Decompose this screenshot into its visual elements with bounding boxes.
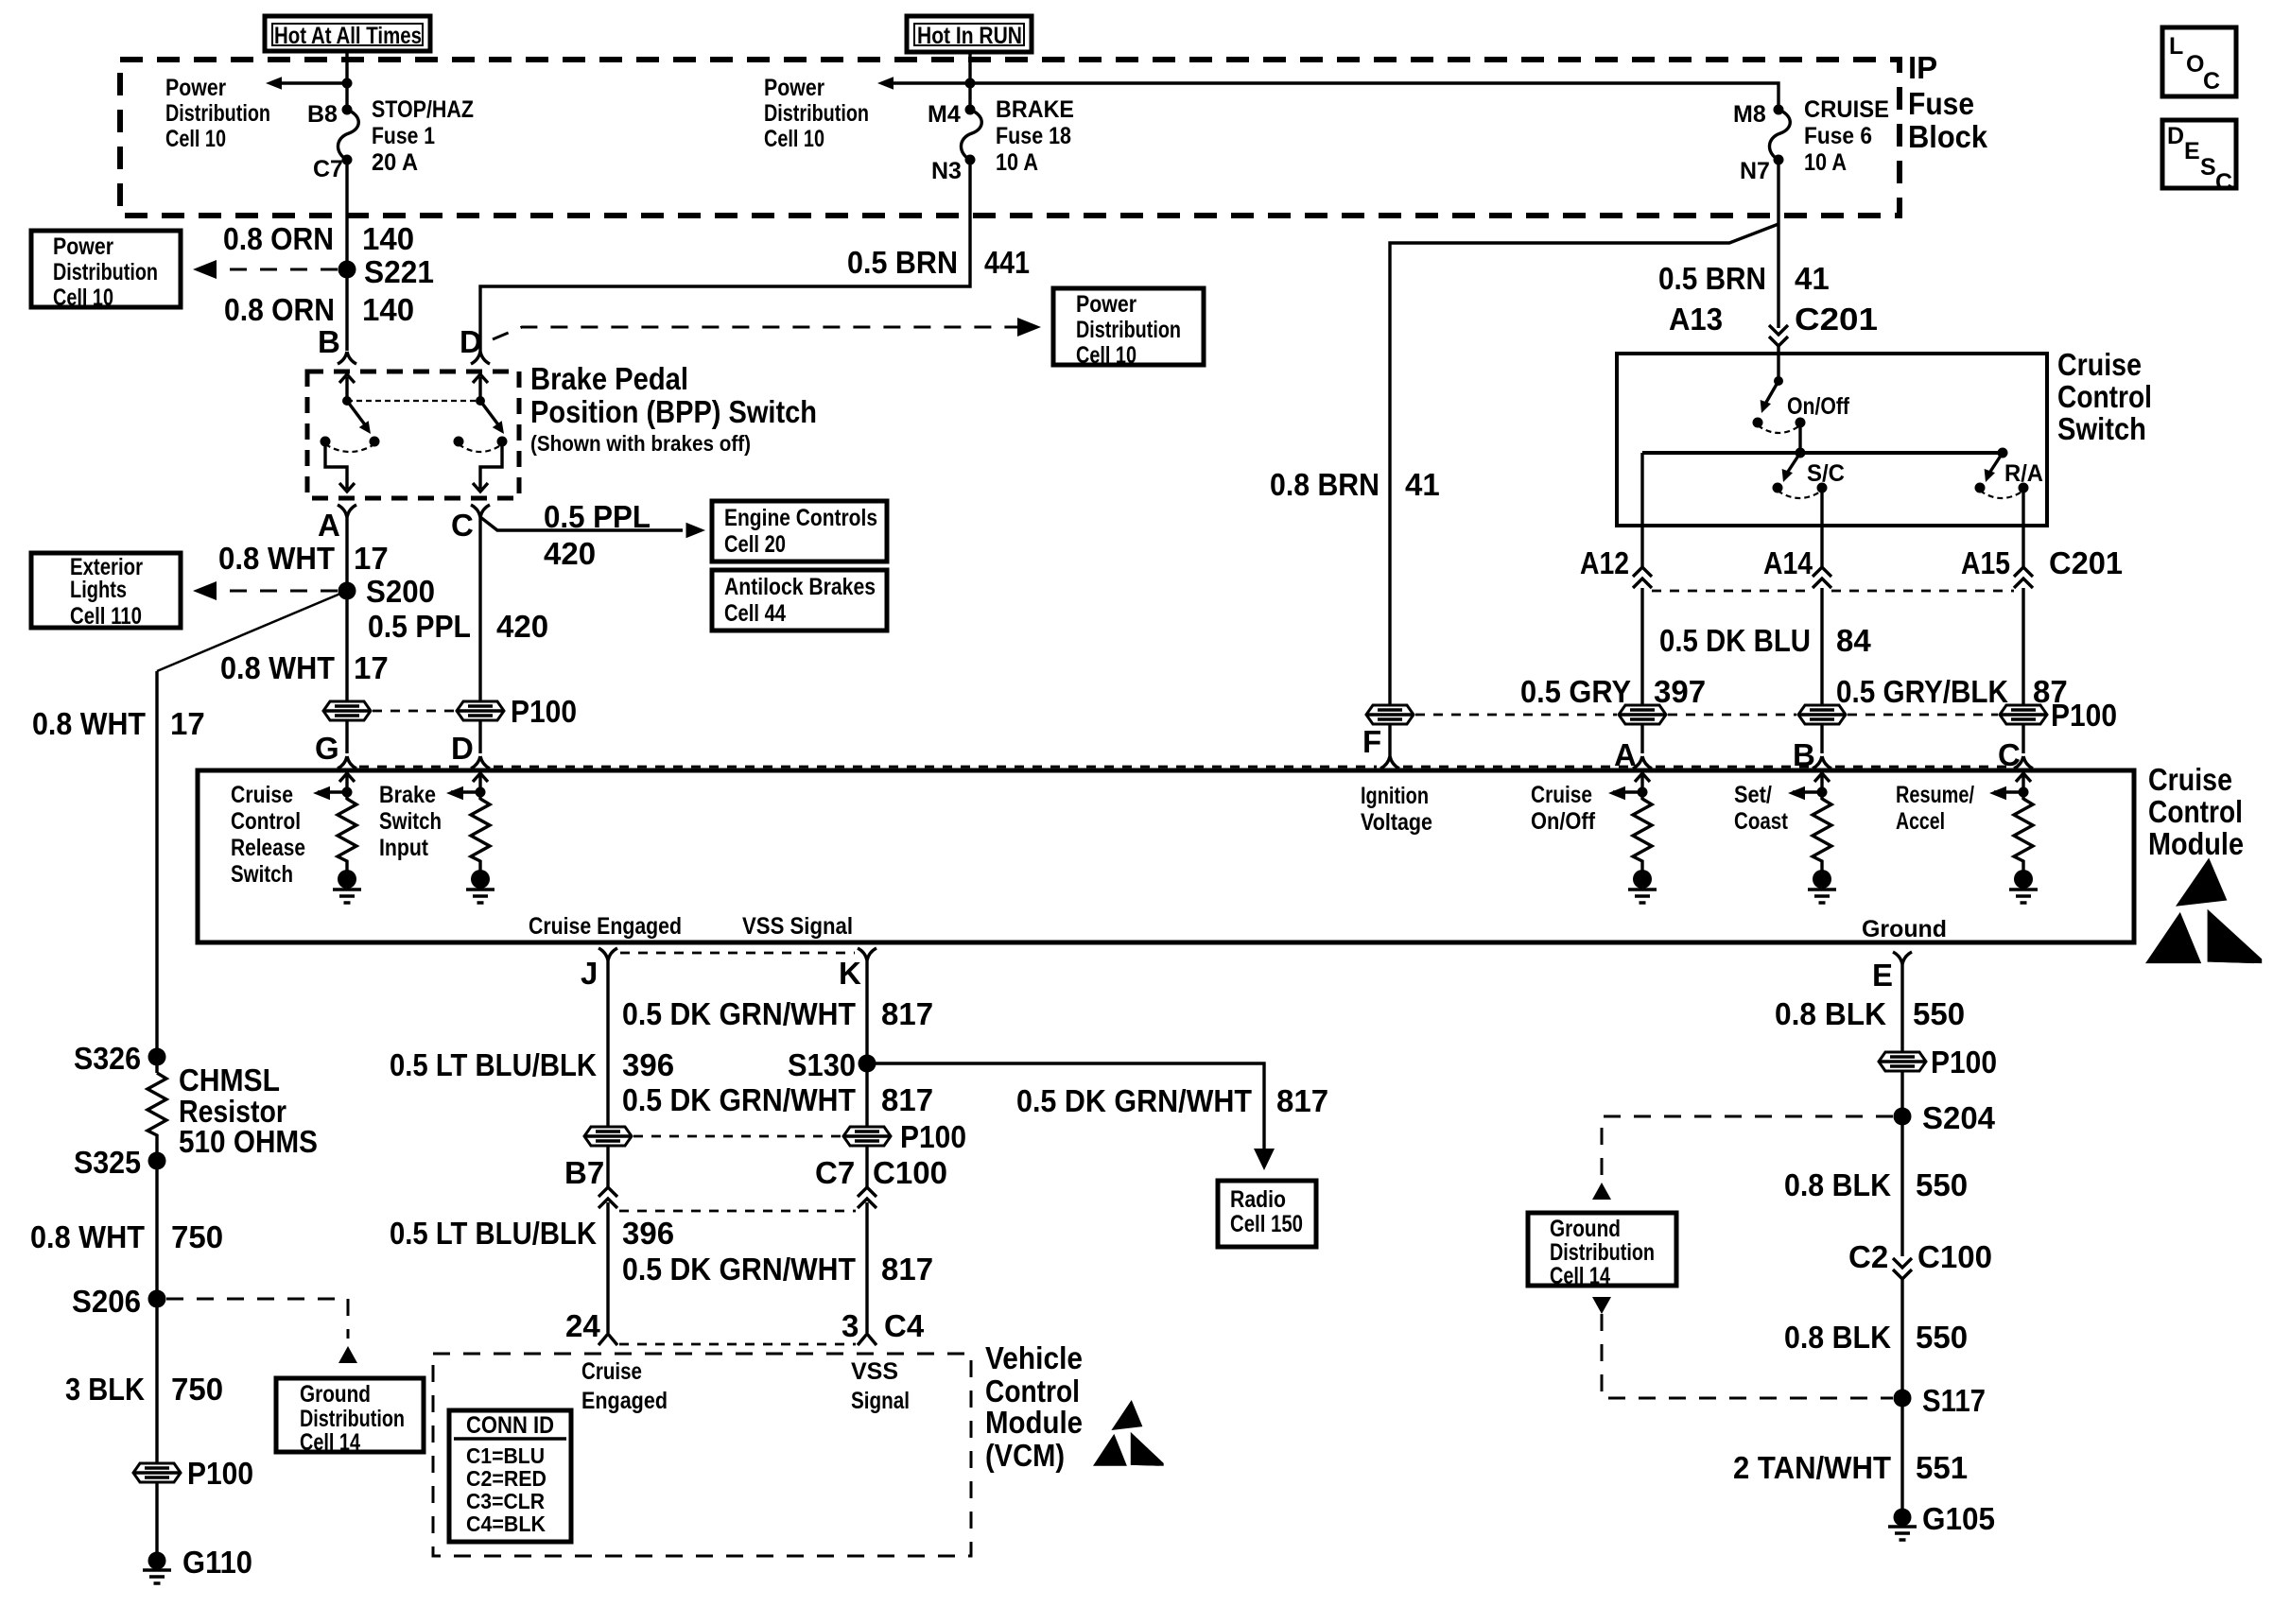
svg-text:Cell 110: Cell 110: [70, 603, 142, 630]
ground G105: [1894, 1509, 1912, 1527]
connector K female: [858, 948, 876, 960]
svg-text:Radio: Radio: [1230, 1186, 1286, 1213]
svg-text:C7: C7: [815, 1155, 855, 1190]
svg-text:Ground: Ground: [1862, 916, 1947, 942]
svg-text:Control: Control: [2057, 379, 2152, 414]
svg-text:S117: S117: [1922, 1383, 1986, 1418]
Antilock Brakes Cell 44 box: [712, 570, 887, 631]
Brake Pedal Position switch dashed box: [307, 371, 519, 498]
svg-text:10 A: 10 A: [996, 149, 1038, 176]
svg-text:441: 441: [984, 245, 1030, 280]
svg-text:41: 41: [1405, 467, 1440, 502]
svg-text:Lights: Lights: [70, 577, 127, 603]
svg-text:817: 817: [881, 996, 933, 1031]
node S326: [148, 1048, 166, 1066]
svg-text:Distribution: Distribution: [300, 1406, 405, 1432]
CHMSL resistor: [155, 1057, 158, 1073]
svg-text:A14: A14: [1763, 545, 1813, 580]
connector P100 on A wire: [1619, 705, 1666, 724]
arrow to Power Distribution (left, in fuse block): [278, 81, 347, 84]
svg-text:Position (BPP) Switch: Position (BPP) Switch: [530, 394, 817, 429]
svg-text:C1=BLU: C1=BLU: [466, 1443, 545, 1468]
svg-text:Distribution: Distribution: [53, 259, 158, 285]
svg-text:On/Off: On/Off: [1787, 393, 1850, 420]
svg-text:Cell 10: Cell 10: [764, 126, 824, 152]
svg-text:F: F: [1362, 724, 1381, 759]
connector D female: [471, 352, 490, 364]
svg-text:S/C: S/C: [1807, 460, 1845, 487]
module pin A internals: [1608, 773, 1657, 903]
dashed arrow S200 to Exterior Lights: [210, 590, 338, 593]
svg-text:817: 817: [881, 1252, 933, 1287]
wire S/C to A14: [1820, 488, 1823, 526]
svg-text:C4=BLK: C4=BLK: [466, 1512, 546, 1536]
Vehicle Control Module dashed box: [433, 1354, 971, 1556]
wire C to P100 to D pin: [478, 517, 481, 753]
S/C blade: [1786, 453, 1800, 475]
connector B female: [338, 352, 356, 364]
svg-text:VSS: VSS: [851, 1358, 898, 1385]
connector C female: [2014, 756, 2033, 769]
svg-text:0.8 WHT: 0.8 WHT: [218, 541, 335, 576]
svg-text:817: 817: [881, 1082, 933, 1117]
On/Off contact arc: [1758, 425, 1800, 433]
connector pin 3 caret: [858, 1334, 876, 1345]
node S221: [338, 261, 356, 279]
connector C201 caret A15: [2014, 567, 2033, 588]
svg-text:S325: S325: [74, 1145, 141, 1180]
rail line in switch: [1642, 451, 2003, 455]
svg-text:Cell 10: Cell 10: [165, 126, 226, 152]
connector P100 on D wire: [457, 701, 504, 720]
LOC box: [2162, 27, 2236, 96]
BPP left pole: entry arrow: [345, 377, 348, 401]
svg-text:P100: P100: [2051, 698, 2117, 733]
svg-text:17: 17: [354, 541, 389, 576]
svg-text:S206: S206: [72, 1284, 141, 1319]
wire A14 down: [1820, 526, 1823, 753]
node S200: [338, 582, 356, 600]
svg-text:C: C: [2203, 68, 2220, 95]
svg-text:Fuse 1: Fuse 1: [372, 123, 435, 149]
svg-text:0.5 DK GRN/WHT: 0.5 DK GRN/WHT: [622, 1082, 856, 1117]
svg-text:S200: S200: [366, 574, 435, 609]
svg-text:Ground: Ground: [1550, 1216, 1621, 1242]
svg-text:0.5 PPL: 0.5 PPL: [368, 609, 471, 644]
svg-text:D: D: [451, 731, 474, 766]
dashed arrow from D to Power Distribution Cell 10 (right): [493, 327, 1017, 339]
connector A female: [1633, 756, 1652, 769]
dashed P100 link row: [1415, 714, 1998, 717]
wire branch diagonal to 0.8 BRN 41 run: [1390, 224, 1778, 756]
Power Distribution Cell 10 box (left margin): [31, 231, 181, 311]
switch S/C pivot: [1796, 448, 1806, 458]
svg-text:C: C: [2215, 169, 2232, 196]
svg-text:IP: IP: [1908, 50, 1937, 85]
junction node at right feed: [965, 78, 976, 89]
svg-text:Cell 150: Cell 150: [1230, 1211, 1303, 1237]
svg-text:D: D: [2167, 123, 2184, 149]
connector P100 on B wire: [1798, 705, 1846, 724]
node S130: [859, 1055, 876, 1073]
Cruise Control Switch box: [1617, 354, 2047, 526]
connector C100 double caret (E wire): [1893, 1258, 1912, 1279]
wire A to S200 to P100 to G: [345, 517, 348, 753]
wire down to P100 and G110: [155, 1299, 158, 1561]
svg-text:Switch: Switch: [2057, 411, 2146, 446]
node S206: [148, 1290, 166, 1308]
svg-text:10 A: 10 A: [1804, 149, 1847, 176]
fuse F18 BRAKE: [961, 105, 981, 165]
BPP left exit wire: [325, 441, 347, 489]
BPP right pole: entry arrow: [478, 377, 481, 401]
svg-text:750: 750: [171, 1219, 223, 1254]
svg-text:Hot At All Times: Hot At All Times: [274, 23, 422, 49]
svg-text:Cell 14: Cell 14: [1550, 1263, 1610, 1289]
svg-text:E: E: [1872, 958, 1893, 993]
svg-text:BRAKE: BRAKE: [996, 96, 1074, 123]
connector J female: [599, 948, 617, 960]
svg-text:Ignition: Ignition: [1361, 783, 1429, 809]
svg-text:Control: Control: [231, 808, 301, 835]
svg-text:Distribution: Distribution: [764, 100, 869, 127]
svg-text:Cell 10: Cell 10: [53, 285, 113, 311]
switch R/A pivot: [1998, 448, 2008, 458]
connector P100 on G wire: [323, 701, 371, 720]
svg-text:420: 420: [544, 536, 596, 571]
svg-text:S204: S204: [1922, 1100, 1996, 1135]
R/A contact arc: [1980, 491, 2023, 498]
svg-text:On/Off: On/Off: [1531, 808, 1596, 835]
svg-text:Cell 44: Cell 44: [724, 600, 786, 627]
svg-text:817: 817: [1276, 1083, 1328, 1118]
svg-text:O: O: [2186, 51, 2204, 78]
svg-text:G105: G105: [1922, 1501, 1995, 1536]
svg-text:Cruise: Cruise: [1531, 782, 1592, 808]
svg-text:Cruise: Cruise: [231, 782, 293, 808]
svg-text:84: 84: [1836, 623, 1871, 658]
connector C201 A13 double caret: [1769, 325, 1788, 346]
BPP right contact arc: [459, 444, 502, 452]
BPP left blade: [347, 401, 367, 427]
BPP left contact arc: [325, 444, 374, 452]
svg-text:A13: A13: [1669, 302, 1723, 337]
svg-text:C201: C201: [2049, 545, 2123, 580]
svg-text:R/A: R/A: [2004, 460, 2043, 487]
svg-text:0.5 GRY/BLK: 0.5 GRY/BLK: [1836, 674, 2008, 709]
On/Off blade: [1764, 381, 1778, 406]
wire A15 down: [2021, 526, 2024, 753]
connector A female: [338, 505, 356, 517]
svg-text:(VCM): (VCM): [985, 1438, 1065, 1473]
svg-text:C100: C100: [873, 1155, 947, 1190]
svg-text:0.8 BLK: 0.8 BLK: [1784, 1320, 1891, 1355]
svg-text:0.5 BRN: 0.5 BRN: [847, 245, 958, 280]
svg-text:STOP/HAZ: STOP/HAZ: [372, 96, 474, 123]
svg-text:A12: A12: [1580, 545, 1629, 580]
svg-text:E: E: [2184, 138, 2200, 164]
svg-text:B7: B7: [564, 1155, 604, 1190]
connector D pin female: [471, 756, 490, 769]
module pin D internals: [446, 773, 495, 903]
svg-text:N3: N3: [931, 158, 962, 184]
Exterior Lights Cell 110 box: [31, 553, 181, 630]
svg-text:Release: Release: [231, 835, 305, 861]
connector C female: [471, 505, 490, 517]
svg-text:0.5 DK GRN/WHT: 0.5 DK GRN/WHT: [1016, 1083, 1252, 1118]
svg-text:Cell 20: Cell 20: [724, 531, 786, 558]
svg-text:Coast: Coast: [1734, 808, 1789, 835]
svg-text:0.5 DK GRN/WHT: 0.5 DK GRN/WHT: [622, 996, 856, 1031]
svg-text:0.5 DK BLU: 0.5 DK BLU: [1659, 623, 1811, 658]
svg-text:Module: Module: [985, 1405, 1083, 1440]
module pin B internals: [1788, 773, 1836, 903]
svg-text:M8: M8: [1733, 101, 1766, 128]
R/A contacts: [1975, 483, 1986, 493]
dashed from S206 to Ground Distribution: [166, 1299, 348, 1339]
wire F inside module: [1388, 769, 1391, 770]
IP Fuse Block dashed box: [120, 60, 1900, 216]
svg-text:C7: C7: [313, 156, 343, 182]
connector pin 24 caret: [599, 1334, 617, 1345]
svg-text:M4: M4: [928, 101, 961, 128]
svg-text:0.8 BLK: 0.8 BLK: [1784, 1167, 1891, 1202]
svg-text:Switch: Switch: [231, 861, 293, 888]
node S117: [1894, 1390, 1912, 1408]
BPP right contacts: [454, 437, 464, 447]
switch On/Off: entry wire: [1777, 354, 1779, 381]
svg-text:S130: S130: [788, 1047, 856, 1082]
svg-text:(Shown with brakes off): (Shown with brakes off): [530, 431, 751, 456]
dashed module top connector line: [359, 766, 2010, 769]
connector E female: [1893, 952, 1912, 964]
svg-text:140: 140: [362, 292, 414, 327]
On/Off pivot: [1774, 376, 1783, 386]
svg-text:S326: S326: [74, 1041, 141, 1076]
svg-text:G110: G110: [182, 1545, 252, 1580]
svg-text:Voltage: Voltage: [1361, 809, 1432, 836]
svg-text:0.8 WHT: 0.8 WHT: [30, 1219, 145, 1254]
svg-text:0.5 PPL: 0.5 PPL: [544, 499, 651, 534]
triangle into Ground Distribution: [338, 1346, 357, 1363]
svg-text:Switch: Switch: [379, 808, 442, 835]
wire J down to VCM: [606, 960, 609, 1333]
fuse F1 STOP/HAZ: [338, 105, 358, 165]
junction node at left feed: [342, 78, 353, 89]
svg-text:20 A: 20 A: [372, 149, 418, 176]
svg-text:CRUISE: CRUISE: [1804, 96, 1889, 123]
dashed C201 connector line: [1652, 590, 2014, 593]
svg-text:A: A: [318, 508, 340, 543]
svg-text:B: B: [318, 324, 340, 359]
wire R/A to A15: [2021, 488, 2024, 526]
rail drop to A12: [1640, 453, 1643, 526]
diagonal branch wire from S200 to left riser: [157, 591, 347, 671]
Engine Controls Cell 20 box: [712, 501, 887, 561]
svg-text:Engine Controls: Engine Controls: [724, 505, 877, 531]
left riser wire down to S326: [155, 671, 158, 1057]
dashed from Ground Distribution down to S117: [1602, 1314, 1893, 1398]
svg-text:Distribution: Distribution: [1550, 1239, 1655, 1266]
wire fuse1 to S221: [345, 160, 348, 351]
svg-text:0.8 BRN: 0.8 BRN: [1270, 467, 1379, 502]
svg-text:Cruise: Cruise: [2148, 762, 2232, 797]
svg-text:0.8 BLK: 0.8 BLK: [1775, 996, 1886, 1031]
module pin C internals: [1989, 773, 2038, 903]
ESD symbol (module): [2145, 858, 2262, 964]
svg-text:Distribution: Distribution: [165, 100, 270, 127]
svg-text:Control: Control: [985, 1373, 1080, 1408]
svg-text:Power: Power: [53, 233, 113, 260]
wire E down to G105: [1900, 964, 1903, 1517]
wire A12 down: [1640, 526, 1643, 753]
svg-text:0.5 LT BLU/BLK: 0.5 LT BLU/BLK: [390, 1216, 597, 1251]
Power Distribution Cell 10 box (middle right): [1053, 288, 1204, 369]
dashed arrow S221 to Power Distribution box: [210, 268, 338, 271]
svg-text:VSS Signal: VSS Signal: [742, 913, 853, 940]
branch 0.5 PPL to Engine Controls: [480, 517, 683, 530]
svg-text:P100: P100: [1931, 1045, 1997, 1080]
svg-text:G: G: [315, 731, 339, 766]
svg-text:CHMSL: CHMSL: [179, 1063, 280, 1097]
svg-text:J: J: [581, 956, 598, 991]
connector C100 caret C7: [858, 1187, 876, 1208]
svg-text:Ground: Ground: [300, 1381, 371, 1408]
svg-text:Hot In RUN: Hot In RUN: [917, 23, 1022, 49]
svg-text:Cell 10: Cell 10: [1076, 342, 1136, 369]
svg-text:0.5 GRY: 0.5 GRY: [1520, 674, 1631, 709]
svg-text:24: 24: [565, 1308, 600, 1343]
R/A blade: [1988, 453, 2003, 475]
svg-text:K: K: [839, 956, 861, 991]
triangle out of Ground Distribution (right bottom): [1592, 1297, 1611, 1314]
BPP right blade: [480, 401, 500, 427]
svg-text:551: 551: [1916, 1450, 1968, 1485]
svg-text:396: 396: [622, 1047, 674, 1082]
dashed from S204 to Ground Distribution (right): [1602, 1116, 1893, 1184]
ESD symbol (VCM): [1093, 1400, 1164, 1466]
svg-text:C3=CLR: C3=CLR: [466, 1489, 545, 1513]
svg-text:550: 550: [1916, 1167, 1968, 1202]
connector C100 caret B7: [599, 1187, 617, 1208]
wire from Hot In RUN into fuse block: [968, 52, 971, 110]
svg-text:C4: C4: [884, 1308, 925, 1343]
svg-text:Cruise: Cruise: [2057, 347, 2142, 382]
connector P100 (left riser): [133, 1463, 181, 1482]
svg-text:Input: Input: [379, 835, 429, 861]
svg-text:Brake Pedal: Brake Pedal: [530, 361, 688, 396]
svg-text:Cruise Engaged: Cruise Engaged: [529, 913, 682, 940]
wire cruise fuse down to C201 and switch: [1777, 160, 1779, 328]
dashed P100 link: [633, 1135, 842, 1138]
svg-text:Module: Module: [2148, 826, 2244, 861]
Hot At All Times box: [265, 16, 430, 51]
BPP right exit wire: [480, 441, 502, 489]
svg-text:Cruise: Cruise: [581, 1358, 642, 1385]
svg-text:C2: C2: [1848, 1239, 1888, 1274]
svg-text:0.8 WHT: 0.8 WHT: [32, 706, 146, 741]
svg-text:CONN ID: CONN ID: [466, 1412, 554, 1439]
svg-text:0.8 WHT: 0.8 WHT: [220, 650, 335, 685]
svg-text:550: 550: [1916, 1320, 1968, 1355]
connector P100 (E wire): [1879, 1052, 1926, 1071]
svg-text:41: 41: [1795, 261, 1830, 296]
connector G female: [338, 756, 356, 769]
node S204: [1894, 1108, 1912, 1126]
BPP left pole pivot: [342, 396, 352, 406]
svg-text:3: 3: [842, 1308, 859, 1343]
BPP mechanical link dashed: [347, 400, 480, 402]
wire S130 to radio arrow: [867, 1063, 1264, 1149]
svg-text:Power: Power: [764, 75, 824, 101]
Ground Distribution Cell 14 box (right): [1528, 1213, 1676, 1289]
svg-text:140: 140: [362, 221, 414, 256]
S/C contacts: [1773, 483, 1783, 493]
connector P100 on K wire: [843, 1127, 891, 1146]
svg-text:0.8 ORN: 0.8 ORN: [224, 292, 335, 327]
svg-text:Fuse 6: Fuse 6: [1804, 123, 1872, 149]
svg-text:P100: P100: [187, 1456, 253, 1491]
svg-text:Power: Power: [165, 75, 226, 101]
svg-text:420: 420: [496, 609, 548, 644]
svg-text:396: 396: [622, 1216, 674, 1251]
wire feed across to cruise fuse: [970, 83, 1778, 110]
svg-text:Antilock Brakes: Antilock Brakes: [724, 574, 876, 600]
svg-text:17: 17: [354, 650, 389, 685]
svg-text:P100: P100: [511, 694, 577, 729]
svg-text:C201: C201: [1795, 302, 1878, 337]
svg-text:Distribution: Distribution: [1076, 317, 1181, 343]
connector F female: [1380, 756, 1399, 769]
svg-text:A15: A15: [1961, 545, 2010, 580]
svg-text:S221: S221: [364, 254, 434, 289]
BPP right pole pivot: [476, 396, 485, 406]
svg-text:Engaged: Engaged: [581, 1388, 668, 1414]
svg-text:Cell 14: Cell 14: [300, 1429, 360, 1456]
S/C contact arc: [1778, 491, 1822, 498]
wire K down to VCM: [865, 960, 868, 1333]
svg-text:550: 550: [1913, 996, 1965, 1031]
svg-text:Brake: Brake: [379, 782, 436, 808]
svg-text:C100: C100: [1917, 1239, 1992, 1274]
module pin G internals: [313, 773, 361, 903]
svg-text:750: 750: [171, 1372, 223, 1407]
svg-text:Power: Power: [1076, 291, 1136, 318]
connector C201 caret A14: [1813, 567, 1831, 588]
dashed C100 connector line: [619, 1210, 856, 1213]
node S325: [148, 1152, 166, 1170]
svg-text:510 OHMS: 510 OHMS: [179, 1124, 318, 1159]
svg-text:Set/: Set/: [1734, 782, 1772, 808]
svg-text:Signal: Signal: [851, 1388, 910, 1414]
CONN ID table: [449, 1410, 571, 1542]
svg-text:0.8 ORN: 0.8 ORN: [223, 221, 334, 256]
BPP left contacts: [321, 437, 331, 447]
svg-text:C: C: [451, 508, 474, 543]
svg-text:Resume/: Resume/: [1896, 782, 1974, 808]
svg-text:P100: P100: [900, 1119, 966, 1154]
connector P100 on C wire: [2000, 705, 2047, 724]
svg-text:0.5 LT BLU/BLK: 0.5 LT BLU/BLK: [390, 1047, 597, 1082]
svg-text:0.5 DK GRN/WHT: 0.5 DK GRN/WHT: [622, 1252, 856, 1287]
svg-text:3 BLK: 3 BLK: [65, 1372, 145, 1407]
svg-text:N7: N7: [1740, 158, 1770, 184]
fuse F6 CRUISE: [1769, 105, 1790, 165]
svg-text:Accel: Accel: [1896, 808, 1945, 835]
svg-text:Fuse 18: Fuse 18: [996, 123, 1071, 149]
svg-text:Fuse: Fuse: [1908, 86, 1974, 121]
arrow to Power Distribution (right, in fuse block): [890, 81, 970, 84]
